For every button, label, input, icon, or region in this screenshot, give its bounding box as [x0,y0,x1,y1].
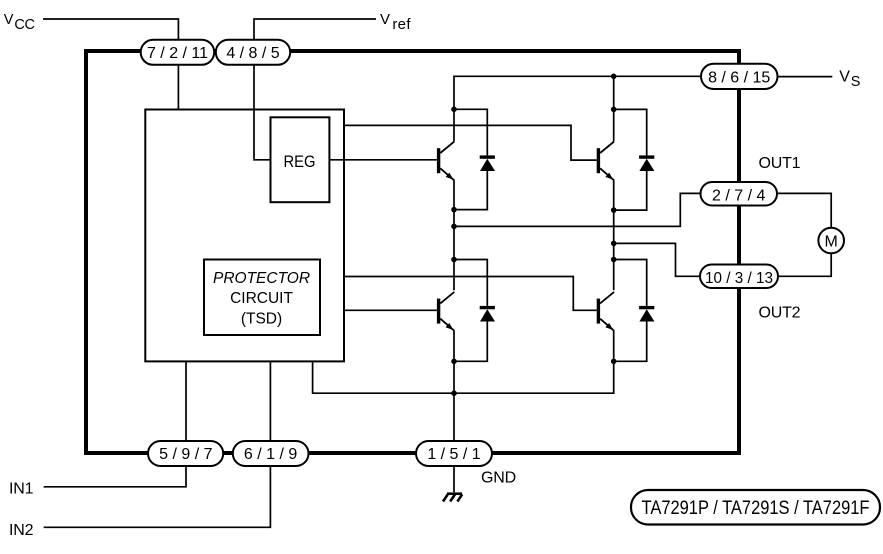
wire left column middle [453,180,455,290]
wire diode D4 branch top [614,260,647,306]
pin 4/8/5 (Vref) [216,40,290,65]
svg-text:7 / 2 / 11: 7 / 2 / 11 [147,45,208,62]
svg-text:PROTECTOR: PROTECTOR [213,270,310,287]
wire logic block to Q4 base [344,277,597,311]
wire right column upper [613,76,615,141]
transistor Q1 [437,142,454,181]
wire REG output to Q1 base [329,159,437,161]
svg-text:CC: CC [14,17,34,33]
part number box TA7291P/S/F [631,490,880,525]
svg-text:CIRCUIT: CIRCUIT [230,290,293,307]
label Vref [380,11,411,33]
wire OUT1 tap to pin 2/7/4 [454,193,701,226]
pin 7/2/11 (VCC) [141,40,215,65]
wire diode D4 branch bottom [614,322,647,362]
svg-text:OUT1: OUT1 [759,155,801,172]
transistor Q4 [597,292,614,331]
wire logic block to Q3 base [344,309,437,311]
wire logic block to pin 5/9/7 [185,361,187,440]
svg-text:V: V [380,11,390,28]
wire diode D2 branch top [614,109,647,155]
pin 8/6/15 (VS) [701,64,778,89]
wire diode D1 branch bottom [454,171,487,210]
svg-text:TA7291P / TA7291S / TA7291F: TA7291P / TA7291S / TA7291F [642,498,870,519]
svg-text:2 / 7 / 4: 2 / 7 / 4 [712,187,765,204]
label VCC [4,12,35,33]
pin 2/7/4 (OUT1) [701,182,778,206]
transistor Q2 [597,142,614,181]
ground symbol [443,494,462,502]
diode D3 [480,306,495,322]
pin 10/3/13 (OUT2) [700,265,778,289]
wire VS top rail [454,76,701,109]
svg-text:8 / 6 / 15: 8 / 6 / 15 [708,70,770,87]
diode D4 [639,306,654,322]
wire pin 7/2/11 to logic block [177,66,179,110]
wire right column lower to ground net [313,331,614,394]
wire left column lower to GND pin [453,331,455,440]
wire OUT2 tap to pin 10/3/13 [614,243,700,276]
svg-text:4 / 8 / 5: 4 / 8 / 5 [226,45,279,62]
wire pin 2/7/4 to motor [777,193,831,227]
wire right column middle [613,180,615,290]
wire diode D2 branch bottom [614,171,647,210]
svg-text:IN1: IN1 [9,481,34,498]
diode D2 [639,155,654,171]
wire VCC lead to pin 7/2/11 [43,19,178,40]
svg-text:V: V [839,69,850,86]
svg-text:GND: GND [481,470,516,487]
svg-text:V: V [4,12,14,28]
wire IN1 to pin 5/9/7 [44,466,186,487]
svg-text:1 / 5 / 1: 1 / 5 / 1 [427,446,480,463]
wire diode D3 branch bottom [454,322,487,362]
svg-text:M: M [825,234,838,251]
wire left column upper [453,109,455,141]
wire diode D3 branch top [454,260,487,306]
svg-text:6 / 1 / 9: 6 / 1 / 9 [244,446,297,463]
svg-text:OUT2: OUT2 [759,305,801,322]
wire diode D1 branch top [454,109,487,155]
svg-text:IN2: IN2 [9,522,34,539]
logic block [145,110,344,362]
transistor Q3 [437,292,454,331]
svg-text:(TSD): (TSD) [241,311,282,328]
protector circuit (TSD) block [204,260,320,336]
pin 5/9/7 (IN1) [148,441,223,466]
svg-text:10 / 3 / 13: 10 / 3 / 13 [705,270,773,287]
wire logic block to Q2 base [344,125,597,160]
wire Vref lead to REG [254,19,376,160]
svg-text:5 / 9 / 7: 5 / 9 / 7 [159,446,212,463]
pin 1/5/1 (GND) [416,441,492,466]
wire pin 10/3/13 to motor [778,253,831,276]
wire logic block through pin 6/1/9 to IN2 [44,361,271,527]
wire pin 8/6/15 to VS label [778,76,833,78]
pin 6/1/9 (IN2) [233,441,309,466]
motor M1 [818,228,844,254]
IC package outer boundary [86,51,739,453]
junction dots left column [451,107,457,397]
diode D1 [480,155,495,171]
regulator REG [271,117,330,202]
label VS [839,69,860,91]
svg-text:REG: REG [284,152,316,171]
svg-text:S: S [851,74,861,90]
junction dots right column [611,74,617,365]
wire pin 1/5/1 to ground symbol [453,466,455,492]
svg-text:ref: ref [392,16,411,33]
